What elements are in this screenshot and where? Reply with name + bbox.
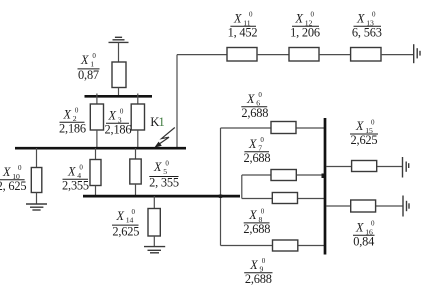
ground G1 top system — [109, 37, 129, 42]
resistor X11 — [227, 48, 257, 62]
bus node B4 right vertical — [324, 118, 327, 255]
wire — [257, 54, 289, 56]
label X1 0,87 — [78, 52, 100, 82]
wire — [221, 127, 325, 129]
wire — [153, 236, 155, 247]
svg-text:2,625: 2,625 — [112, 224, 139, 238]
svg-text:0: 0 — [262, 257, 266, 265]
wire — [118, 88, 120, 98]
wire — [96, 130, 98, 148]
svg-text:2,625: 2,625 — [351, 133, 378, 147]
svg-text:2, 355: 2, 355 — [149, 176, 179, 190]
svg-text:2,186: 2,186 — [105, 123, 132, 137]
label X4 2,355 — [62, 164, 89, 193]
wire — [221, 245, 325, 247]
label X3 2,186 — [105, 108, 132, 137]
ground G2 right of X13 — [414, 44, 420, 63]
label X5 2,355 — [149, 159, 179, 189]
label X7 2,688 — [244, 136, 271, 165]
label X2 2,186 — [59, 107, 86, 136]
svg-text:X: X — [248, 208, 257, 222]
wire — [242, 174, 324, 176]
junction of branch vertical and bus B3 — [219, 195, 222, 198]
label X11 1,452 — [228, 11, 258, 40]
svg-text:0: 0 — [132, 208, 136, 216]
svg-text:X: X — [295, 12, 304, 26]
svg-text:0: 0 — [120, 108, 124, 116]
wire — [220, 128, 222, 246]
resistor X5 — [130, 159, 141, 184]
resistor X10 — [31, 168, 42, 193]
resistor X12 — [289, 48, 319, 62]
svg-text:5: 5 — [163, 167, 167, 176]
resistor X6 — [271, 122, 296, 134]
svg-text:X: X — [355, 119, 364, 133]
svg-text:X: X — [153, 160, 162, 174]
svg-text:2,355: 2,355 — [62, 178, 89, 192]
resistor X2 — [90, 104, 103, 130]
resistor X1 — [112, 62, 126, 88]
svg-text:X: X — [356, 12, 365, 26]
label X8 2,688 — [243, 207, 270, 236]
svg-text:0: 0 — [249, 11, 253, 19]
svg-text:2,688: 2,688 — [241, 106, 268, 120]
wire — [137, 94, 139, 105]
svg-text:6, 563: 6, 563 — [352, 26, 382, 40]
wire — [118, 42, 120, 62]
svg-text:0: 0 — [258, 91, 262, 99]
resistor X7 — [271, 170, 296, 181]
svg-text:2,186: 2,186 — [59, 121, 86, 135]
wire — [137, 130, 139, 148]
wire — [36, 193, 38, 205]
label X14 2,625 — [112, 208, 139, 238]
bus node B1 — [85, 95, 153, 98]
svg-text:0: 0 — [79, 164, 83, 172]
resistor X16 — [351, 200, 376, 212]
svg-text:0: 0 — [165, 159, 169, 167]
svg-text:X: X — [233, 12, 242, 26]
svg-text:X: X — [67, 164, 76, 178]
wire — [242, 198, 324, 200]
wire — [135, 148, 137, 159]
label X6 2,688 — [241, 91, 268, 120]
junction at X7 and right bus — [322, 174, 326, 179]
svg-text:1, 452: 1, 452 — [228, 26, 258, 40]
svg-text:0: 0 — [75, 107, 79, 115]
svg-text:X: X — [63, 107, 72, 121]
svg-text:X: X — [2, 165, 11, 179]
svg-text:X: X — [80, 53, 89, 67]
wire — [177, 54, 227, 56]
ground G3 below X10 — [26, 204, 47, 210]
svg-text:X: X — [249, 258, 258, 272]
svg-text:2,688: 2,688 — [243, 222, 270, 236]
resistor X14 — [148, 209, 160, 237]
label X13 6,563 — [352, 11, 382, 40]
label X10 2,625 — [0, 164, 26, 193]
wire — [36, 148, 38, 168]
svg-text:0,84: 0,84 — [353, 235, 374, 249]
wire — [96, 94, 98, 105]
svg-text:K1: K1 — [150, 115, 164, 129]
svg-text:0: 0 — [261, 207, 265, 215]
svg-text:0: 0 — [372, 11, 376, 19]
ground G6 right of X16 — [403, 196, 409, 217]
svg-text:X: X — [246, 92, 255, 106]
wire — [319, 54, 351, 56]
svg-text:0,87: 0,87 — [78, 68, 99, 82]
svg-text:2,688: 2,688 — [244, 151, 271, 165]
ground G5 right of X15 — [403, 157, 409, 178]
bus node B2 main — [15, 147, 186, 150]
svg-text:0: 0 — [311, 11, 315, 19]
svg-text:X: X — [355, 221, 364, 235]
svg-text:0: 0 — [92, 52, 96, 60]
bus node B3 lower — [83, 195, 240, 198]
wire — [153, 196, 155, 209]
short-circuit bolt at K1 — [154, 128, 175, 148]
svg-text:0: 0 — [371, 220, 375, 228]
wire — [326, 205, 403, 207]
svg-text:1, 206: 1, 206 — [290, 26, 320, 40]
svg-text:0: 0 — [18, 164, 22, 172]
wire — [176, 55, 178, 148]
resistor X13 — [351, 48, 381, 62]
svg-text:X: X — [116, 209, 125, 223]
resistor X15 — [352, 161, 377, 172]
resistor X4 — [90, 160, 101, 186]
wire — [241, 175, 243, 199]
wire — [95, 148, 97, 160]
label X15 2,625 — [350, 118, 378, 147]
resistor X3 — [131, 104, 144, 130]
resistor X9 — [273, 240, 298, 251]
wire — [95, 186, 97, 197]
svg-text:0: 0 — [371, 118, 375, 126]
wire — [381, 54, 414, 56]
svg-text:2, 625: 2, 625 — [0, 179, 26, 193]
svg-text:2,688: 2,688 — [245, 272, 272, 286]
wire — [326, 166, 402, 168]
label X9 2,688 — [244, 257, 272, 286]
wire — [135, 184, 137, 196]
svg-text:X: X — [248, 137, 257, 151]
svg-text:X: X — [108, 109, 117, 123]
resistor X8 — [272, 193, 297, 204]
label K1 — [150, 115, 164, 129]
label X16 0,84 — [353, 220, 375, 249]
svg-text:0: 0 — [260, 136, 264, 144]
label X12 1,206 — [290, 11, 320, 40]
ground G4 below X14 — [144, 247, 165, 253]
